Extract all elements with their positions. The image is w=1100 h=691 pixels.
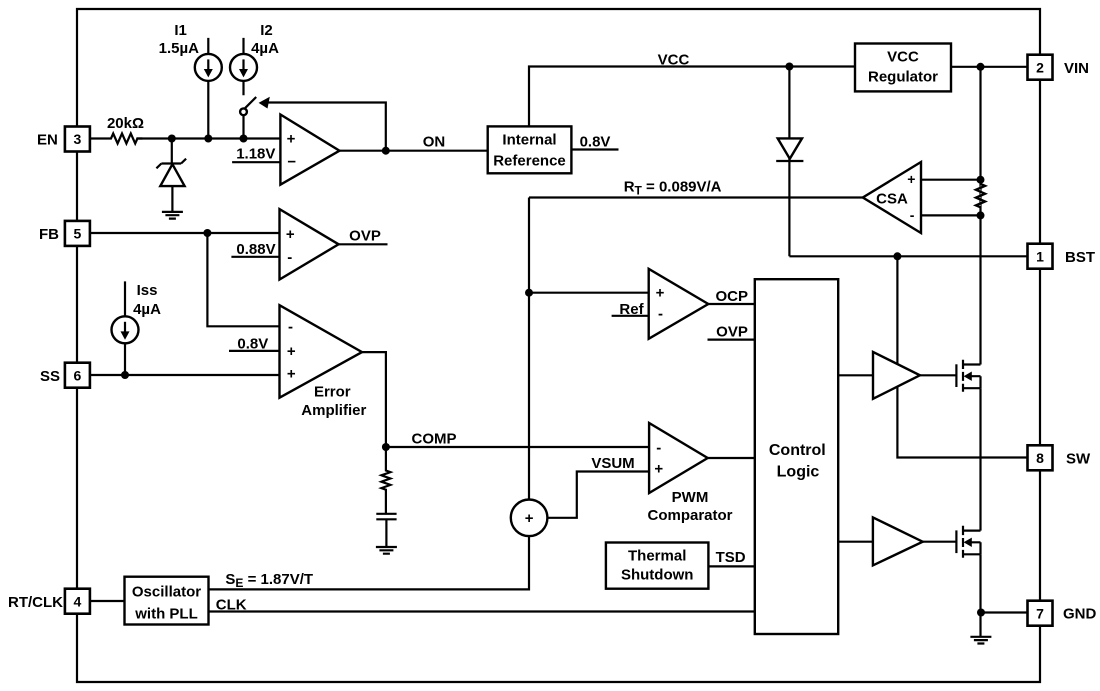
capacitor Ccomp	[376, 514, 396, 520]
svg-text:+: +	[287, 130, 296, 147]
svg-text:Internal: Internal	[502, 132, 556, 149]
svg-text:EN: EN	[37, 131, 58, 148]
transistor Q2 low side NMOS	[956, 526, 980, 558]
pin 5 FB box	[65, 221, 90, 246]
wire OVP output	[339, 243, 388, 245]
svg-text:ON: ON	[423, 134, 446, 151]
svg-text:Control: Control	[769, 442, 826, 459]
svg-text:Reference: Reference	[493, 153, 566, 170]
svg-text:4µA: 4µA	[251, 40, 279, 57]
wire Ref to OCP comparator plus	[529, 292, 649, 294]
node CSA plus junction	[977, 176, 985, 184]
diode D1 VCC to BST	[776, 67, 803, 257]
op-amp CSA current sense amplifier	[863, 162, 921, 233]
node OCP branch junction	[525, 289, 533, 297]
wire regulator to VIN pin	[951, 66, 1028, 68]
svg-text:6: 6	[74, 367, 82, 383]
wire PWM output to control logic	[708, 457, 755, 459]
svg-text:-: -	[287, 249, 292, 266]
svg-text:Shutdown: Shutdown	[621, 567, 693, 584]
svg-text:2: 2	[1036, 59, 1044, 75]
svg-text:Amplifier: Amplifier	[301, 402, 366, 419]
svg-text:GND: GND	[1063, 605, 1097, 622]
wire CSA plus input	[921, 179, 981, 181]
node EN junction I1	[204, 135, 212, 143]
svg-text:Oscillator: Oscillator	[132, 583, 201, 600]
wire EN from pin 3	[90, 137, 106, 139]
pin 4 RT/CLK box	[65, 589, 90, 614]
resistor Rsense CSA	[976, 184, 985, 207]
resistor 20k EN	[106, 134, 142, 144]
transistor Q1 high side NMOS	[956, 360, 980, 392]
svg-text:+: +	[287, 343, 296, 360]
wire control logic to low driver	[838, 541, 873, 543]
wire low FET drain to SW	[979, 458, 981, 531]
wire pin 4 to oscillator	[90, 600, 125, 602]
svg-text:OVP: OVP	[716, 324, 748, 341]
svg-text:Iss: Iss	[137, 282, 158, 299]
resistor Rcomp	[381, 447, 390, 514]
block Thermal Shutdown	[606, 543, 709, 589]
wire ON output	[340, 150, 488, 152]
wire cap to ground	[385, 519, 387, 547]
wire SS from pin 6	[90, 374, 280, 376]
block VCC Regulator	[855, 44, 951, 92]
svg-text:BST: BST	[1065, 249, 1095, 266]
wire TSD to control logic	[708, 565, 754, 567]
node BST junction	[893, 252, 901, 260]
svg-text:1: 1	[1036, 248, 1044, 264]
svg-text:TSD: TSD	[716, 549, 746, 566]
svg-text:+: +	[525, 510, 534, 527]
node VIN sense junction	[977, 63, 985, 71]
svg-text:1.5µA: 1.5µA	[159, 40, 199, 57]
wire 0.88V to OVP comparator minus	[231, 256, 279, 258]
node GND junction	[977, 609, 985, 617]
block Internal Reference	[488, 126, 572, 173]
svg-text:−: −	[287, 154, 296, 171]
ground below Ccomp	[376, 547, 397, 554]
node EN junction switch	[240, 135, 248, 143]
op-amp U3 error amplifier	[280, 305, 363, 398]
svg-text:SS: SS	[40, 368, 60, 385]
wire high driver to gate	[920, 374, 957, 376]
wire GND to pin 7	[981, 611, 1028, 613]
pin 2 VIN box	[1028, 55, 1053, 80]
svg-text:SW: SW	[1066, 450, 1091, 467]
svg-text:VCC: VCC	[887, 49, 919, 66]
pin 6 SS box	[65, 363, 90, 388]
svg-text:COMP: COMP	[412, 431, 457, 448]
block Oscillator with PLL	[125, 577, 209, 625]
svg-text:CSA: CSA	[876, 190, 908, 207]
node VCC diode junction	[785, 63, 793, 71]
wire BST to drivers rail	[897, 256, 1027, 457]
node COMP junction	[382, 443, 390, 451]
svg-text:+: +	[656, 285, 665, 302]
svg-text:Thermal: Thermal	[628, 547, 686, 564]
wire central VSUM rail	[209, 198, 530, 590]
svg-text:Comparator: Comparator	[647, 507, 732, 524]
ground at low FET source	[970, 637, 991, 644]
wire control logic to high driver	[838, 374, 873, 376]
wire VIN sense down to high FET drain	[979, 67, 981, 365]
summing junction	[511, 500, 548, 537]
node EN junction zener	[168, 135, 176, 143]
svg-text:7: 7	[1036, 605, 1044, 621]
svg-text:Regulator: Regulator	[868, 69, 938, 86]
pin 3 EN box	[65, 127, 90, 152]
wire BST line	[789, 255, 1027, 257]
svg-text:+: +	[287, 365, 296, 382]
block Control Logic	[755, 279, 838, 634]
svg-text:I1: I1	[174, 22, 187, 39]
current source I1	[195, 38, 222, 139]
wire error amp output to COMP	[362, 352, 386, 447]
svg-text:1.18V: 1.18V	[236, 145, 275, 162]
svg-text:4µA: 4µA	[133, 301, 161, 318]
comparator U2 OVP	[280, 209, 339, 279]
svg-text:VIN: VIN	[1064, 60, 1089, 77]
zener diode on EN	[156, 139, 186, 212]
svg-text:4: 4	[74, 593, 82, 609]
svg-text:-: -	[656, 439, 661, 456]
wire VCC from internal reference	[529, 67, 855, 127]
wire 1.18V to comparator minus	[232, 161, 280, 163]
ground below zener	[162, 212, 183, 219]
svg-text:VSUM: VSUM	[591, 455, 634, 472]
wire OVP into control logic	[708, 339, 755, 341]
svg-text:RT/CLK: RT/CLK	[8, 594, 63, 611]
svg-text:-: -	[288, 318, 293, 335]
wire Ref underline to OCP minus	[612, 315, 649, 317]
svg-text:20kΩ: 20kΩ	[107, 115, 144, 132]
wire FB to error amp minus	[207, 233, 279, 326]
wire RT output of CSA	[529, 196, 863, 198]
current source I2	[230, 38, 257, 95]
pin 8 SW box	[1028, 445, 1053, 470]
pin 7 GND box	[1028, 601, 1053, 626]
svg-text:OCP: OCP	[715, 288, 748, 305]
wire high FET source to SW	[979, 388, 981, 457]
svg-text:8: 8	[1036, 450, 1044, 466]
svg-text:-: -	[658, 306, 663, 323]
wire low FET source to GND	[979, 554, 981, 637]
svg-text:Logic: Logic	[777, 463, 820, 480]
wire EN to comparator	[136, 137, 280, 139]
wire FB from pin 5	[90, 232, 280, 234]
comparator U5 PWM	[649, 423, 708, 493]
svg-text:-: -	[910, 207, 915, 223]
svg-text:FB: FB	[39, 226, 59, 243]
svg-text:Error: Error	[314, 384, 351, 401]
node CSA minus junction	[977, 211, 985, 219]
comparator U4 OCP	[649, 269, 709, 339]
svg-text:VCC: VCC	[658, 52, 690, 69]
wire CSA minus input	[921, 214, 981, 216]
svg-text:PWM: PWM	[672, 489, 709, 506]
svg-text:with PLL: with PLL	[134, 605, 198, 622]
svg-text:+: +	[654, 460, 663, 477]
wire summing output to VSUM	[547, 472, 649, 518]
comparator U1 enable	[280, 115, 339, 185]
svg-text:5: 5	[74, 226, 82, 242]
wire 0.8V output	[571, 148, 618, 150]
wire OCP output to control logic	[708, 303, 755, 305]
wire feedback from ON node to switch with arrow	[259, 97, 386, 151]
wire CLK to control logic	[209, 610, 755, 612]
svg-text:+: +	[907, 171, 915, 187]
svg-text:+: +	[286, 226, 295, 243]
wire low driver to gate	[923, 541, 957, 543]
node SS junction	[121, 371, 129, 379]
driver A1 high side	[873, 352, 920, 399]
node FB junction	[203, 229, 211, 237]
svg-text:OVP: OVP	[349, 228, 381, 245]
switch S1 on I2	[240, 97, 256, 139]
svg-text:0.88V: 0.88V	[236, 241, 275, 258]
wire 0.8V to error amp plus	[229, 350, 280, 352]
svg-text:0.8V: 0.8V	[580, 134, 611, 151]
pin 1 BST box	[1028, 244, 1053, 269]
wire COMP to PWM comparator minus	[386, 446, 649, 448]
svg-text:I2: I2	[260, 22, 273, 39]
driver A2 low side	[873, 517, 923, 565]
node ON junction	[382, 147, 390, 155]
current source Iss	[112, 281, 139, 375]
svg-text:3: 3	[74, 131, 82, 147]
